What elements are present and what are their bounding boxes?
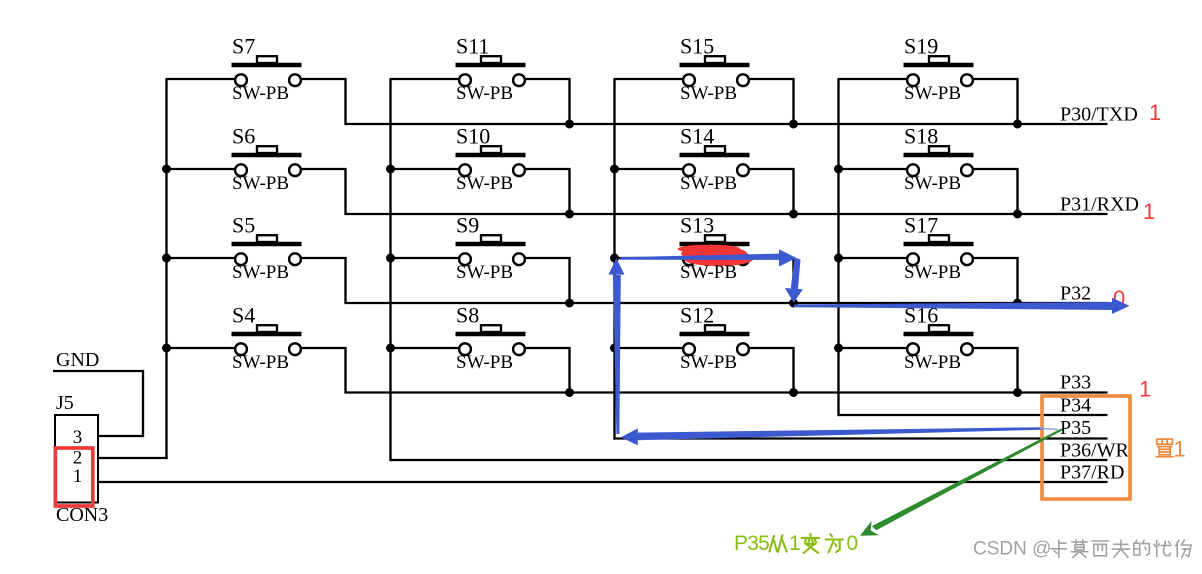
S7 actuator bar: [232, 63, 302, 68]
svg-text:SW-PB: SW-PB: [456, 352, 513, 373]
svg-text:GND: GND: [56, 349, 99, 371]
wire: S14 left lead: [614, 168, 685, 170]
S11 button cap: [481, 56, 501, 63]
S18 button cap: [929, 146, 949, 153]
svg-text:S13: S13: [680, 213, 714, 238]
blue arrow: long left arrow along P35: [621, 427, 1058, 445]
S5 terminal circle left: [235, 253, 247, 265]
wire: S13 right lead down to row line: [748, 258, 794, 304]
junction: column 4 / row 2: [834, 165, 843, 174]
wire: S14 right lead down to row line: [748, 169, 794, 215]
S16 actuator bar: [904, 332, 974, 337]
S13 button cap: [705, 235, 725, 242]
red highlight scribble on S13: [678, 245, 754, 266]
S4 terminal circle right: [289, 343, 301, 355]
S19 actuator bar: [904, 63, 974, 68]
watermark CSDN @卡莫西夫的忧伤: [973, 539, 1191, 560]
S5 terminal circle right: [289, 253, 301, 265]
annotation 置1: [1156, 437, 1186, 462]
svg-text:S17: S17: [904, 213, 938, 238]
svg-text:P30/TXD: P30/TXD: [1060, 104, 1138, 126]
S19 terminal circle right: [961, 74, 973, 86]
S9 terminal circle right: [513, 253, 525, 265]
wire: S5 left lead: [166, 257, 237, 259]
wire: S16 left lead: [838, 347, 909, 349]
wire: S19 left lead: [838, 78, 909, 80]
S5 button cap: [257, 235, 277, 242]
S13 terminal circle right: [737, 253, 749, 265]
S10 terminal circle left: [459, 164, 471, 176]
wire: GND lead: [53, 371, 143, 436]
svg-text:S4: S4: [232, 303, 255, 328]
S8 actuator bar: [456, 332, 526, 337]
svg-text:SW-PB: SW-PB: [232, 83, 289, 104]
S14 terminal circle left: [683, 164, 695, 176]
junction: row line 4 / drop of column 4: [1013, 388, 1022, 397]
S14 terminal circle right: [737, 164, 749, 176]
svg-text:1: 1: [1139, 377, 1151, 402]
wire: P32 row line: [345, 302, 1108, 304]
S6 actuator bar: [232, 153, 302, 158]
svg-text:S19: S19: [904, 34, 938, 59]
wire: S10 right lead down to row line: [524, 169, 570, 215]
pushbutton S13: [614, 213, 794, 305]
svg-text:J5: J5: [56, 392, 74, 414]
junction: column 3 / row 4: [610, 344, 619, 353]
pushbutton S11: [390, 34, 570, 126]
wire: S13 left lead: [614, 257, 685, 259]
svg-text:SW-PB: SW-PB: [680, 352, 737, 373]
S19 button cap: [929, 56, 949, 63]
junction: column 1 / row 2: [162, 165, 171, 174]
S18 terminal circle left: [907, 164, 919, 176]
S9 button cap: [481, 235, 501, 242]
S11 terminal circle left: [459, 74, 471, 86]
junction: row line 2 / drop of column 3: [789, 210, 798, 219]
blue arrow: up along column 3: [609, 258, 625, 434]
S11 terminal circle right: [513, 74, 525, 86]
svg-text:1: 1: [1174, 437, 1186, 462]
pushbutton S8: [390, 303, 570, 394]
junction: column 2 / row 3: [386, 254, 395, 263]
svg-text:SW-PB: SW-PB: [680, 173, 737, 194]
wire: S17 right lead down to row line: [972, 258, 1018, 304]
pushbutton S9: [390, 213, 570, 305]
wire: column 4 vertical bus: [837, 79, 839, 416]
svg-text:SW-PB: SW-PB: [904, 262, 961, 283]
wire: S8 right lead down to row line: [524, 348, 570, 394]
S12 button cap: [705, 325, 725, 332]
junction: column 4 / row 4: [834, 344, 843, 353]
S15 terminal circle right: [737, 74, 749, 86]
S6 terminal circle left: [235, 164, 247, 176]
S11 actuator bar: [456, 63, 526, 68]
wire: S15 left lead: [614, 78, 685, 80]
S10 button cap: [481, 146, 501, 153]
pushbutton S17: [838, 213, 1018, 305]
S4 actuator bar: [232, 332, 302, 337]
green arrow from P35 label to annotation text: [860, 428, 1063, 536]
pushbutton S4: [166, 303, 346, 394]
wire: column 2 vertical bus: [389, 79, 391, 461]
svg-text:S15: S15: [680, 34, 714, 59]
junction: row line 1 / drop of column 4: [1013, 120, 1022, 129]
svg-text:S12: S12: [680, 303, 714, 328]
S17 actuator bar: [904, 242, 974, 247]
wire: S11 right lead down to row line: [524, 79, 570, 125]
S16 terminal circle right: [961, 343, 973, 355]
S10 actuator bar: [456, 153, 526, 158]
S5 actuator bar: [232, 242, 302, 247]
S17 terminal circle right: [961, 253, 973, 265]
junction: column 1 / row 4: [162, 344, 171, 353]
svg-text:1: 1: [73, 466, 83, 487]
junction: column 4 / row 3: [834, 254, 843, 263]
wire: P30/TXD row line: [345, 123, 1108, 125]
svg-text:P35: P35: [1060, 417, 1091, 439]
connector J5 (CON3) body: [55, 415, 98, 503]
S4 button cap: [257, 325, 277, 332]
pushbutton S12: [614, 303, 794, 394]
pushbutton S10: [390, 124, 570, 216]
svg-text:SW-PB: SW-PB: [904, 83, 961, 104]
wire: column 3 vertical bus: [613, 79, 615, 440]
svg-text:S6: S6: [232, 124, 255, 149]
svg-text:SW-PB: SW-PB: [456, 173, 513, 194]
S18 terminal circle right: [961, 164, 973, 176]
wire: S16 right lead down to row line: [972, 348, 1018, 394]
wire: S4 right lead down to row line: [300, 348, 346, 394]
S13 terminal circle left: [683, 253, 695, 265]
pushbutton S16: [838, 303, 1018, 394]
svg-text:S11: S11: [456, 34, 489, 59]
svg-text:S8: S8: [456, 303, 479, 328]
svg-text:0: 0: [847, 532, 859, 555]
S4 terminal circle left: [235, 343, 247, 355]
S8 terminal circle left: [459, 343, 471, 355]
svg-text:P36/WR: P36/WR: [1060, 440, 1130, 462]
svg-text:P32: P32: [1060, 283, 1091, 305]
svg-text:P33: P33: [1060, 372, 1091, 394]
blue arrow: right across S13: [620, 249, 797, 266]
S12 terminal circle left: [683, 343, 695, 355]
svg-text:CSDN @: CSDN @: [973, 539, 1051, 560]
S7 terminal circle left: [235, 74, 247, 86]
S7 button cap: [257, 56, 277, 63]
junction: row line 2 / drop of column 2: [565, 210, 574, 219]
orange annotation box around P33..P37 labels: [1042, 396, 1130, 499]
wire: P35 line from column 3: [613, 437, 1107, 439]
svg-text:S10: S10: [456, 124, 490, 149]
S12 terminal circle right: [737, 343, 749, 355]
wire: S9 left lead: [390, 257, 461, 259]
S7 terminal circle right: [289, 74, 301, 86]
S10 terminal circle right: [513, 164, 525, 176]
junction: row line 4 / drop of column 2: [565, 388, 574, 397]
wire: J5 pin 2 to column 1: [98, 457, 168, 459]
wire: P37/RD line from J5 pin 1: [98, 481, 1108, 483]
junction: column 2 / row 4: [386, 344, 395, 353]
red annotation box around J5 pins 1-2: [55, 448, 92, 506]
wire: S15 right lead down to row line: [748, 79, 794, 125]
svg-text:SW-PB: SW-PB: [904, 352, 961, 373]
junction: column 1 / row 3: [162, 254, 171, 263]
S19 terminal circle left: [907, 74, 919, 86]
S9 actuator bar: [456, 242, 526, 247]
S18 actuator bar: [904, 153, 974, 158]
S13 actuator bar: [680, 242, 750, 247]
svg-text:1: 1: [1143, 199, 1155, 224]
junction: row line 4 / drop of column 3: [789, 388, 798, 397]
S15 terminal circle left: [683, 74, 695, 86]
junction: column 3 / row 3: [610, 254, 619, 263]
wire: S12 right lead down to row line: [748, 348, 794, 394]
svg-text:SW-PB: SW-PB: [680, 83, 737, 104]
junction: row line 3 / drop of column 2: [565, 299, 574, 308]
wire: S6 left lead: [166, 168, 237, 170]
wire: S7 right lead down to row line: [300, 79, 346, 125]
wire: S18 right lead down to row line: [972, 169, 1018, 215]
S15 button cap: [705, 56, 725, 63]
S17 button cap: [929, 235, 949, 242]
wire: S8 left lead: [390, 347, 461, 349]
pushbutton S14: [614, 124, 794, 216]
svg-text:S9: S9: [456, 213, 479, 238]
junction: row line 3 / drop of column 3: [789, 299, 798, 308]
S14 button cap: [705, 146, 725, 153]
S17 terminal circle left: [907, 253, 919, 265]
annotation text P35从1变为0: [734, 532, 858, 555]
pushbutton S19: [838, 34, 1018, 126]
svg-text:1: 1: [1149, 100, 1161, 125]
pushbutton S7: [166, 34, 346, 126]
svg-text:S5: S5: [232, 213, 255, 238]
svg-text:SW-PB: SW-PB: [232, 173, 289, 194]
junction: column 2 / row 2: [386, 165, 395, 174]
pushbutton S18: [838, 124, 1018, 216]
wire: P36/WR line from column 2: [389, 459, 1107, 461]
pushbutton S5: [166, 213, 346, 305]
wire: S17 left lead: [838, 257, 909, 259]
S6 button cap: [257, 146, 277, 153]
junction: column 3 / row 2: [610, 165, 619, 174]
wire: column 1 vertical bus: [165, 79, 167, 459]
S8 terminal circle right: [513, 343, 525, 355]
svg-text:1: 1: [789, 532, 801, 555]
svg-text:3: 3: [73, 427, 83, 448]
svg-text:SW-PB: SW-PB: [232, 262, 289, 283]
S8 button cap: [481, 325, 501, 332]
S15 actuator bar: [680, 63, 750, 68]
wire: S12 left lead: [614, 347, 685, 349]
pushbutton S6: [166, 124, 346, 216]
wire: S4 left lead: [166, 347, 237, 349]
junction: row line 1 / drop of column 3: [789, 120, 798, 129]
junction: row line 1 / drop of column 2: [565, 120, 574, 129]
svg-text:P35: P35: [734, 532, 769, 555]
S9 terminal circle left: [459, 253, 471, 265]
junction: row line 3 / drop of column 4: [1013, 299, 1022, 308]
pushbutton S15: [614, 34, 794, 126]
svg-text:S18: S18: [904, 124, 938, 149]
S14 actuator bar: [680, 153, 750, 158]
wire: S11 left lead: [390, 78, 461, 80]
svg-text:SW-PB: SW-PB: [456, 83, 513, 104]
S16 terminal circle left: [907, 343, 919, 355]
S12 actuator bar: [680, 332, 750, 337]
svg-text:S7: S7: [232, 34, 255, 59]
S16 button cap: [929, 325, 949, 332]
wire: S9 right lead down to row line: [524, 258, 570, 304]
svg-text:SW-PB: SW-PB: [904, 173, 961, 194]
blue arrow: down to P32 row line: [785, 258, 803, 303]
wire: S7 left lead: [166, 78, 237, 80]
wire: S19 right lead down to row line: [972, 79, 1018, 125]
wire: P33 row line: [345, 391, 1108, 393]
wire: P31/RXD row line: [345, 213, 1108, 215]
wire: P34 line from column 4: [837, 414, 1107, 416]
svg-text:P37/RD: P37/RD: [1060, 462, 1124, 484]
blue arrow: along P32 to the right: [794, 298, 1130, 314]
svg-text:SW-PB: SW-PB: [232, 352, 289, 373]
svg-text:SW-PB: SW-PB: [456, 262, 513, 283]
wire: S10 left lead: [390, 168, 461, 170]
svg-text:S14: S14: [680, 124, 714, 149]
wire: S5 right lead down to row line: [300, 258, 346, 304]
junction: row line 2 / drop of column 4: [1013, 210, 1022, 219]
wire: S18 left lead: [838, 168, 909, 170]
svg-text:SW-PB: SW-PB: [680, 262, 737, 283]
svg-text:P31/RXD: P31/RXD: [1060, 194, 1139, 216]
S6 terminal circle right: [289, 164, 301, 176]
wire: S6 right lead down to row line: [300, 169, 346, 215]
